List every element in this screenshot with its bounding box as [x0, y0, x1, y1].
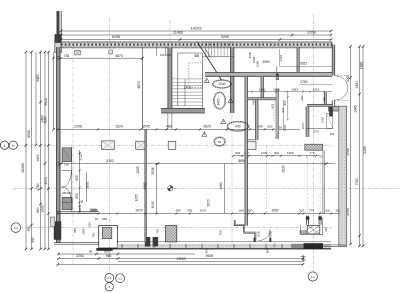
svg-text:120: 120	[160, 53, 165, 57]
revision cloud 2040	[213, 80, 232, 88]
grid line vertical x266	[266, 146, 268, 214]
stair dim arrow	[184, 79, 186, 106]
svg-text:2040: 2040	[218, 82, 225, 86]
hatched pier inside stair box	[102, 228, 111, 239]
svg-text:1265: 1265	[136, 166, 140, 173]
grid line axis F-A horizontal	[21, 227, 333, 229]
interior dim line x156.5	[156, 164, 158, 214]
interior wall x261-263	[261, 76, 264, 97]
svg-text:1200: 1200	[261, 151, 268, 155]
svg-text:1524: 1524	[115, 125, 123, 129]
svg-text:1159: 1159	[255, 60, 259, 67]
left exterior wall	[57, 47, 60, 243]
stair left wall	[168, 47, 172, 110]
left dimension line x26	[25, 52, 27, 249]
core dimension line x86.5	[86, 173, 88, 202]
revision cloud 3403	[214, 92, 226, 109]
svg-text:1450: 1450	[273, 87, 280, 91]
svg-text:2769: 2769	[300, 80, 308, 84]
svg-text:543: 543	[78, 206, 82, 211]
bottom dimension line 5000	[59, 253, 196, 255]
right exterior stippled wall	[339, 106, 347, 246]
dark block wall junction	[276, 74, 279, 77]
wall stub x156	[156, 47, 158, 56]
svg-text:5000: 5000	[104, 249, 111, 253]
svg-text:2650: 2650	[271, 208, 278, 212]
axis bubble 1 left	[0, 141, 8, 149]
svg-text:4873: 4873	[137, 81, 141, 89]
svg-text:5290: 5290	[221, 35, 229, 39]
axis bubble F-A left	[11, 223, 21, 233]
pier on bottom band	[166, 226, 177, 242]
svg-text:3085: 3085	[82, 228, 86, 235]
svg-text:1545: 1545	[142, 125, 150, 129]
dimension 4873 vertical	[141, 58, 143, 129]
bottom dimension line outer	[58, 263, 303, 265]
svg-text:890: 890	[36, 207, 40, 213]
grid line vertical x170 top stub	[169, 20, 171, 42]
core bottom wall	[57, 211, 99, 213]
wc east wall line	[322, 150, 324, 213]
svg-text:1453: 1453	[291, 87, 298, 91]
svg-text:300: 300	[274, 151, 279, 155]
svg-text:1480: 1480	[355, 81, 359, 89]
bath inner wall y128.4	[306, 127, 333, 129]
svg-text:60: 60	[218, 140, 222, 144]
svg-text:5152: 5152	[106, 159, 114, 163]
bath dark corner block	[329, 107, 333, 116]
svg-text:900: 900	[266, 248, 270, 253]
wall stub top-left vertical	[57, 11, 60, 35]
bottom dimension line 13069	[118, 261, 303, 263]
svg-text:4870: 4870	[115, 54, 123, 58]
svg-text:650: 650	[267, 125, 272, 129]
svg-text:11466: 11466	[173, 31, 183, 35]
warning triangle 3	[221, 119, 226, 123]
dimension line 6298 / 5290	[61, 39, 331, 41]
grid line vertical x245	[245, 95, 247, 214]
core door arcs	[62, 169, 72, 171]
svg-text:2298: 2298	[74, 125, 82, 129]
niche door jamb posts	[254, 238, 256, 242]
right dimension line x359.5	[359, 47, 361, 247]
circle 738 core	[56, 163, 59, 166]
bottom dark bar above 5000	[96, 248, 112, 251]
svg-text:1-2: 1-2	[118, 277, 122, 281]
svg-text:50: 50	[80, 200, 84, 204]
svg-text:440: 440	[31, 237, 35, 243]
interior wall top-right x297	[297, 47, 299, 73]
svg-text:150: 150	[322, 97, 326, 102]
svg-text:13069: 13069	[176, 257, 186, 261]
grid line vertical x232	[231, 115, 233, 250]
svg-text:966: 966	[106, 254, 112, 258]
svg-text:5615: 5615	[44, 98, 48, 106]
corner hatch right wall	[329, 106, 339, 111]
niche door arc	[259, 230, 270, 241]
svg-text:1319: 1319	[313, 87, 320, 91]
svg-text:4080: 4080	[219, 182, 223, 189]
axis bubble 2 bottom	[105, 283, 113, 291]
survey point symbol	[168, 186, 173, 191]
warning triangle 2	[228, 98, 233, 102]
storefront band bottom	[117, 241, 331, 243]
svg-text:630: 630	[269, 231, 273, 236]
svg-text:851: 851	[283, 100, 287, 105]
right center rotated dims	[273, 101, 275, 122]
elevator block upper left core	[62, 148, 71, 162]
wc hatch box	[307, 225, 320, 234]
svg-text:1955: 1955	[134, 194, 138, 201]
bath room box	[326, 114, 332, 129]
warning triangle 1	[204, 78, 209, 82]
svg-text:7320: 7320	[355, 178, 359, 186]
bottom dimension line 2254 / 966 / 9639	[59, 258, 304, 260]
grid line axis middle horizontal	[13, 188, 400, 190]
svg-text:178: 178	[166, 53, 171, 57]
bath west wall x306-309	[306, 106, 309, 137]
stair bottom wall	[161, 108, 205, 113]
svg-text:7280: 7280	[44, 116, 48, 124]
svg-text:1430: 1430	[36, 154, 40, 162]
small box below band x109	[109, 50, 113, 54]
svg-text:790: 790	[91, 232, 95, 237]
column x247	[247, 141, 256, 149]
svg-text:200: 200	[300, 95, 304, 100]
svg-text:310: 310	[87, 222, 91, 227]
niche stepped wall	[234, 220, 255, 241]
left dimension line x48.5	[48, 52, 50, 249]
svg-text:600: 600	[239, 208, 244, 212]
svg-text:850: 850	[75, 175, 79, 181]
interior dimension line y213	[57, 213, 340, 215]
bath dashed stub	[302, 86, 304, 105]
svg-text:480: 480	[175, 208, 180, 212]
double door right exterior	[335, 75, 349, 77]
core right boundary	[71, 147, 73, 212]
interior dimension line y129	[57, 128, 300, 130]
grid line axis 2-2 vertical	[313, 14, 315, 271]
axis bubble 1a left	[9, 141, 17, 149]
entry threshold dark bottom-right	[291, 244, 304, 248]
svg-text:300: 300	[247, 208, 252, 212]
svg-text:2-2: 2-2	[311, 275, 315, 279]
svg-text:170: 170	[273, 243, 277, 248]
dimension 779 small	[307, 155, 322, 157]
wc gray block	[300, 231, 306, 235]
exterior wall top hatched band	[61, 42, 332, 47]
svg-text:1586: 1586	[360, 62, 364, 70]
storefront mullion blobs	[145, 237, 151, 247]
svg-text:985: 985	[73, 228, 77, 233]
svg-text:16360: 16360	[21, 163, 25, 173]
stair left wall extension	[167, 113, 169, 129]
wc pipe fixture right	[318, 217, 321, 220]
svg-text:2722: 2722	[79, 153, 83, 160]
svg-text:PB 600: PB 600	[62, 191, 71, 195]
svg-text:1945: 1945	[151, 201, 155, 208]
svg-text:900: 900	[204, 248, 208, 253]
stair treads upper flight	[205, 43, 207, 57]
small box below band left	[75, 50, 81, 55]
column x101	[102, 141, 115, 150]
stair inner wall	[202, 53, 204, 108]
svg-text:2922: 2922	[300, 62, 308, 66]
left dimension line x45	[44, 52, 46, 249]
pier top-left corner	[55, 35, 62, 43]
hatched pier row right y145	[305, 144, 323, 150]
svg-text:300: 300	[187, 208, 192, 212]
left dimension line x31.5	[31, 52, 33, 249]
grid line axis 2-1 vertical	[108, 18, 110, 273]
svg-text:400: 400	[235, 125, 241, 129]
wc base lines	[300, 233, 322, 235]
dimension line 1800 row y91.7	[248, 91, 333, 93]
elevator block lower left core	[62, 197, 72, 209]
dimension line 14293	[61, 30, 331, 32]
interior wall y97.7-99.8	[248, 98, 277, 100]
svg-text:14293: 14293	[190, 26, 202, 31]
svg-text:300: 300	[299, 208, 304, 212]
small box left of pier	[50, 217, 55, 226]
interior dim line x224	[223, 164, 225, 214]
interior face line below top band	[61, 48, 332, 50]
svg-text:3060: 3060	[346, 75, 350, 83]
svg-text:2030: 2030	[282, 165, 286, 172]
svg-text:779: 779	[309, 151, 314, 155]
svg-text:2058: 2058	[307, 31, 315, 35]
interior wall x276-278 with door gap	[276, 76, 279, 79]
right dimension line x363	[362, 47, 364, 247]
right exterior wall upper	[332, 45, 335, 76]
stair diagonal cut line	[198, 42, 222, 80]
grid line vertical x73	[72, 46, 74, 264]
svg-text:3590: 3590	[262, 60, 270, 64]
svg-text:600: 600	[235, 151, 240, 155]
svg-text:2036: 2036	[151, 167, 155, 174]
svg-text:1601: 1601	[85, 181, 89, 188]
svg-text:1780: 1780	[36, 183, 40, 191]
dimension 4870 room line	[58, 57, 143, 59]
svg-text:2679: 2679	[135, 208, 142, 212]
right dimension line x350.5	[350, 47, 352, 245]
dimension line 11466 / 2058	[61, 34, 331, 36]
svg-text:720: 720	[156, 229, 160, 234]
svg-text:1800: 1800	[259, 87, 266, 91]
interior wall x145	[145, 129, 146, 242]
svg-text:970: 970	[27, 226, 31, 232]
svg-text:1450: 1450	[287, 151, 294, 155]
left dimension line x36	[35, 52, 37, 145]
bath wall y104.5-106.3	[307, 105, 333, 107]
cross marks bottom right	[301, 255, 306, 259]
pier bottom-left dark	[54, 222, 61, 240]
svg-text:1570: 1570	[313, 130, 320, 134]
wall stub x142	[141, 47, 143, 129]
wc pipe fixture left	[306, 217, 309, 220]
stair box bottom-left	[99, 226, 118, 248]
svg-text:F-A: F-A	[14, 226, 18, 230]
column x135	[136, 141, 146, 149]
svg-text:835: 835	[257, 231, 261, 236]
svg-text:480: 480	[166, 125, 172, 129]
svg-text:2670: 2670	[200, 208, 207, 212]
svg-text:2-1: 2-1	[107, 276, 111, 280]
svg-text:738: 738	[63, 162, 68, 166]
svg-text:2480: 2480	[36, 74, 40, 82]
svg-text:6298: 6298	[112, 35, 120, 39]
svg-text:8945: 8945	[27, 130, 31, 138]
dimension line 5152 8898	[61, 163, 335, 165]
bottom wall from pier	[54, 242, 99, 244]
svg-text:1965: 1965	[90, 208, 97, 212]
hatched wall top-left	[55, 43, 62, 53]
wc stall dashed projections	[306, 157, 308, 213]
grid line axis 1 horizontal	[17, 144, 333, 146]
svg-text:360: 360	[324, 227, 328, 232]
left dimension line x40.5	[40, 52, 42, 249]
svg-text:1003: 1003	[283, 124, 287, 131]
svg-text:3403: 3403	[217, 98, 221, 105]
interior wall horizontal y72-76	[205, 73, 332, 77]
axis bubble 2-1 bottom	[105, 274, 114, 283]
warning triangle 4	[202, 132, 207, 136]
svg-text:9639: 9639	[206, 254, 214, 258]
svg-text:700: 700	[219, 230, 223, 235]
wall stub x165	[164, 47, 166, 56]
svg-text:850: 850	[75, 193, 79, 199]
svg-text:1073: 1073	[301, 122, 305, 129]
svg-text:358: 358	[194, 54, 200, 58]
axis bubble 1-2 bottom	[116, 274, 125, 283]
svg-text:4080: 4080	[143, 182, 147, 189]
svg-text:60: 60	[89, 249, 93, 253]
left dimension line x53.5	[53, 52, 55, 130]
revision cloud small	[214, 137, 225, 146]
svg-text:2670: 2670	[207, 199, 211, 206]
stair treads lower flight	[172, 78, 203, 80]
interior wall x255-258	[256, 100, 259, 140]
svg-text:3620: 3620	[203, 125, 211, 129]
core dimension line x79.6	[79, 150, 81, 212]
svg-text:779: 779	[309, 208, 314, 212]
svg-text:951: 951	[271, 103, 275, 108]
wall cap y139.8	[248, 139, 259, 141]
bottom right double line	[323, 244, 347, 246]
axis bubble 2-2 bottom right	[308, 272, 317, 281]
svg-text:3160: 3160	[41, 205, 45, 213]
svg-text:2254: 2254	[76, 254, 84, 258]
svg-text:931: 931	[325, 208, 330, 212]
svg-text:150: 150	[335, 208, 340, 212]
svg-text:1485: 1485	[353, 105, 357, 113]
revision cloud 400	[227, 121, 249, 131]
svg-text:480: 480	[330, 132, 335, 136]
storefront band bottom edge dark	[99, 248, 331, 250]
column x168	[168, 142, 176, 150]
storefront mullion ticks	[121, 244, 123, 249]
svg-text:961: 961	[281, 107, 285, 112]
right exterior wall below door	[331, 100, 333, 106]
stair dashed landing rect	[189, 63, 203, 88]
svg-text:2285: 2285	[363, 146, 367, 154]
svg-text:3570: 3570	[44, 177, 48, 185]
stair right wall	[231, 47, 234, 113]
svg-text:140: 140	[252, 100, 256, 105]
svg-text:835: 835	[102, 217, 107, 221]
interior wall x245	[245, 76, 248, 225]
svg-text:738: 738	[64, 54, 70, 58]
dimension line 600-300-1200-300-1450	[233, 155, 316, 157]
svg-text:1218: 1218	[321, 116, 325, 123]
bath wall x324 upper	[324, 92, 326, 105]
